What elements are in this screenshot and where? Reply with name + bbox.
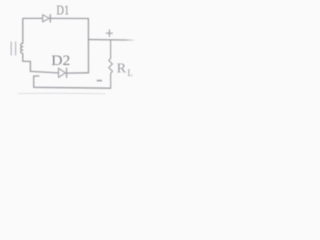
- svg-text:L: L: [127, 68, 132, 78]
- svg-text:R: R: [117, 61, 127, 76]
- svg-text:D1: D1: [56, 3, 69, 18]
- svg-text:D2: D2: [51, 53, 70, 69]
